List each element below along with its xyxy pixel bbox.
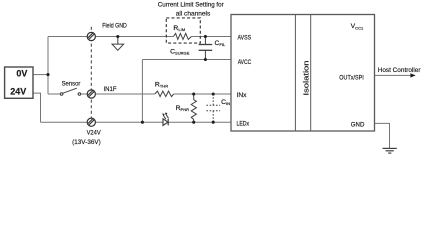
svg-text:Host Controller: Host Controller <box>378 67 421 74</box>
svg-text:Field GND: Field GND <box>102 23 127 30</box>
svg-text:Sensor: Sensor <box>62 80 81 87</box>
svg-text:GND: GND <box>351 121 365 128</box>
svg-text:24V: 24V <box>10 87 26 97</box>
svg-text:Current Limit Setting for: Current Limit Setting for <box>158 2 225 9</box>
svg-text:INx: INx <box>237 92 248 99</box>
svg-text:all channels: all channels <box>176 11 211 18</box>
svg-text:0V: 0V <box>16 69 27 79</box>
svg-text:AVCC: AVCC <box>238 59 252 66</box>
svg-text:V24V: V24V <box>87 130 101 137</box>
svg-text:IN1F: IN1F <box>104 86 117 93</box>
svg-text:Isolation: Isolation <box>301 61 310 96</box>
svg-text:(13V-36V): (13V-36V) <box>72 139 101 146</box>
svg-text:LEDx: LEDx <box>237 121 250 128</box>
svg-text:AVSS: AVSS <box>238 35 252 42</box>
svg-text:OUTx/SPI: OUTx/SPI <box>339 74 364 81</box>
